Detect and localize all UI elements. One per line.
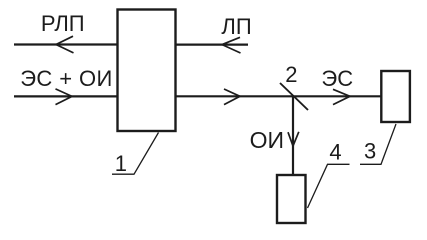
svg-text:ОИ: ОИ	[250, 127, 284, 153]
svg-text:ЭС + ОИ: ЭС + ОИ	[20, 66, 113, 91]
svg-text:2: 2	[285, 62, 297, 87]
svg-text:3: 3	[364, 139, 376, 164]
svg-text:4: 4	[329, 140, 341, 165]
svg-text:ЛП: ЛП	[221, 14, 251, 39]
svg-text:1: 1	[115, 151, 127, 176]
svg-text:РЛП: РЛП	[41, 11, 85, 36]
svg-text:ЭС: ЭС	[321, 66, 353, 91]
